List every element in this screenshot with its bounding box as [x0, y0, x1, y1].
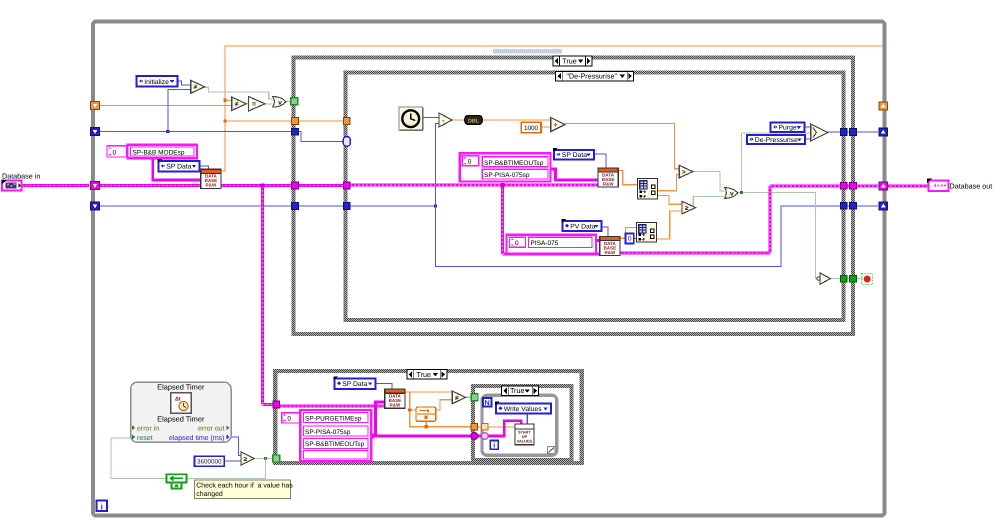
outer while loop border [93, 22, 885, 516]
wire green or gate to case selector [286, 101, 292, 103]
svg-text:≠: ≠ [235, 101, 239, 108]
wire pink branch down to bottom case [261, 186, 264, 405]
svg-text:R&W: R&W [206, 183, 217, 188]
array constant PISA-075 [507, 235, 597, 254]
Elapsed Timer express VI [131, 382, 232, 442]
svg-text:SP-B&BTIMEOUTsp: SP-B&BTIMEOUTsp [484, 160, 544, 167]
wire green not gate to stop terminal [830, 278, 841, 280]
stop boolean terminal [862, 274, 873, 285]
wire blue De-Pressurise to select [805, 138, 811, 140]
database raw VI 3 [385, 389, 405, 408]
wire blue left shift reg row2 [98, 131, 292, 133]
svg-text:De-Pressurise: De-Pressurise [755, 137, 798, 144]
wire blue SP Data enum to DB3 [376, 384, 392, 390]
comparator greater-equal elapsed [241, 452, 254, 465]
enum constant De-Pressurise [747, 135, 805, 144]
bottom inner case structure True frame [473, 386, 572, 460]
svg-text:"De-Pressurise": "De-Pressurise" [566, 72, 617, 81]
svg-text:SP Data: SP Data [562, 152, 587, 159]
svg-text:i: i [493, 442, 495, 450]
feedback node [167, 474, 187, 482]
selector label True bottom case [407, 370, 447, 380]
wire green not-equal to bottom selector [465, 396, 471, 398]
svg-text:≥: ≥ [244, 456, 248, 463]
subtract node [439, 113, 452, 127]
enum constant Purge [771, 123, 805, 132]
database raw VI 0 [201, 169, 221, 188]
wire blue between cases to selector [297, 132, 344, 142]
wire blue select output to tunnels [828, 131, 841, 133]
outer case right tunnels [850, 129, 857, 136]
wire orange to case tunnel [225, 120, 292, 122]
wire orange DB3 to not-equal [405, 391, 453, 393]
svg-text:0: 0 [515, 240, 519, 247]
wire blue enum to comparator [177, 81, 191, 85]
svg-text:0: 0 [287, 416, 291, 423]
svg-text:≡: ≡ [252, 101, 256, 108]
for loop fold corner [548, 447, 556, 454]
wire orange index array1 out1 to greater [658, 175, 680, 191]
or gate 2 [725, 188, 738, 199]
wire orange stub to comparator top [225, 99, 232, 101]
wire green gte to or2 [693, 196, 724, 207]
svg-text:0: 0 [113, 150, 117, 157]
wire orange top span [225, 46, 883, 171]
svg-text:Database in: Database in [2, 172, 40, 181]
enum constant Initialize [137, 76, 178, 87]
wire orange DB3 down to tunnel [410, 392, 472, 427]
index array 1 [638, 179, 658, 200]
wire blue SP Data enum to DB1 [594, 154, 606, 168]
bottom case pink tunnel [273, 401, 280, 408]
svg-text:>: > [682, 169, 686, 176]
wire orange inside for loop to subVI [477, 426, 515, 428]
comment Check each hour [195, 480, 291, 498]
Database out indicator [928, 180, 948, 191]
array constant SP setpoint names [460, 153, 551, 181]
index array 2 [637, 223, 657, 243]
wire blue shift state vertical [168, 90, 191, 132]
comparator equal-zero [248, 97, 265, 112]
wire orange index array2 to gte [657, 211, 683, 239]
svg-text:≠: ≠ [455, 395, 459, 402]
comparator not-equal 1 [191, 80, 205, 93]
wire pink DB0 to case [221, 184, 292, 187]
svg-text:changed: changed [196, 491, 223, 498]
numeric constant 1000 [521, 122, 541, 133]
wire orange 1000 to divide [541, 126, 551, 128]
array constant SP-B&B MODEsp [107, 146, 127, 157]
wire blue SP Data enum to DB0 [200, 166, 209, 169]
svg-text:-: - [442, 117, 444, 124]
svg-text:PV Data: PV Data [570, 224, 596, 231]
svg-text:Check each hour if a value ha: Check each hour if a value has [196, 482, 293, 489]
enum constant SP Data bottom [334, 378, 375, 389]
for loop count terminal N [483, 398, 492, 407]
while loop iteration terminal i [97, 501, 108, 512]
wire pink inner row to DB1 [350, 184, 598, 187]
selector label True for-loop case [502, 386, 539, 396]
svg-text:Write Values: Write Values [504, 406, 543, 413]
wire pink MODEsp array to DB0 [153, 158, 201, 181]
svg-text:SP-PISA-075sp: SP-PISA-075sp [305, 429, 351, 436]
inner case right tunnels [840, 129, 847, 136]
wire orange in-range to not-equal [436, 400, 452, 410]
numeric constant 3600000 [195, 456, 225, 466]
bottom case selector terminal [273, 455, 280, 462]
bottom inner case selector terminal [471, 394, 478, 401]
svg-text:R&W: R&W [605, 250, 616, 255]
svg-text:True: True [510, 386, 525, 395]
inner case structure De-Pressurise frame [346, 73, 844, 321]
svg-text:SP-B&BTIMEOUTsp: SP-B&BTIMEOUTsp [305, 441, 365, 448]
wire blue Write Values to subVI [526, 413, 528, 424]
comparator not-equal bottom [452, 391, 465, 404]
svg-text:R&W: R&W [603, 181, 614, 186]
svg-text:error in: error in [137, 425, 159, 433]
wire blue left shift reg row4 [98, 205, 292, 207]
enum constant Write Values [496, 404, 551, 414]
bottom case structure True frame [275, 371, 582, 463]
wire pink to Database out [886, 184, 928, 187]
svg-text:0: 0 [468, 158, 472, 165]
wire orange subtract to DBL to divide [452, 119, 465, 121]
svg-text:R&W: R&W [390, 402, 401, 407]
select node [811, 124, 828, 141]
right shift register tunnels [879, 102, 888, 110]
wire orange divide to greater [565, 124, 680, 169]
svg-text:v: v [278, 99, 282, 106]
wire orange in-range bottom stub [425, 421, 427, 426]
svg-text:SP-B&B MODEsp: SP-B&B MODEsp [133, 149, 185, 156]
or gate 1 [273, 96, 286, 107]
wire green greater to or2 [693, 172, 725, 191]
svg-text:≠: ≠ [194, 84, 198, 91]
bottom inner case orange tunnel [471, 424, 477, 430]
wire pink branch to DB2 [501, 185, 504, 254]
wire blue tick count loop [350, 205, 436, 207]
enum constant SP Data 0 [159, 161, 200, 172]
svg-text:Elapsed Timer: Elapsed Timer [157, 415, 205, 424]
enum constant PV Data [562, 221, 601, 231]
database raw VI 1 [598, 168, 618, 187]
svg-text:PISA-075: PISA-075 [531, 240, 559, 247]
svg-text:Elapsed Timer: Elapsed Timer [157, 383, 205, 392]
enum constant SP Data 1 [554, 150, 594, 160]
comparator greater-equal [682, 201, 696, 214]
svg-text:True: True [562, 56, 577, 65]
svg-text:error out: error out [198, 426, 225, 433]
wire orange between case borders [297, 120, 344, 122]
wire pink between cases [297, 184, 344, 187]
wire orange index array1 out2 to gte [658, 195, 683, 204]
svg-text:VALUES: VALUES [517, 438, 533, 443]
svg-text:Δt: Δt [175, 396, 181, 402]
wire green comparator2 to comparator3 [246, 103, 248, 105]
for loop frame [482, 395, 557, 455]
svg-text:DBL: DBL [468, 118, 480, 124]
not gate [820, 273, 831, 284]
selector label True top case [553, 56, 592, 66]
array constant bottom setpoint names [282, 413, 300, 423]
wire blue 3600000 to comparator [224, 460, 241, 462]
outer case left tunnels [292, 118, 299, 125]
in range and coerce node [416, 407, 436, 421]
DBL coercion [465, 115, 483, 124]
svg-text:0: 0 [628, 236, 632, 243]
svg-text:SP Data: SP Data [342, 381, 367, 388]
svg-text:True: True [417, 370, 432, 379]
left shift register tunnels [91, 102, 100, 110]
wire orange DB2 to index array2 [620, 228, 637, 239]
svg-text:SP-PURGETIMEsp: SP-PURGETIMEsp [305, 416, 362, 423]
wire green comparator1 elbow to or gate [204, 87, 273, 99]
wire green or2 output net [738, 192, 742, 194]
wire blue index 0 to index array2 [634, 238, 637, 240]
wire orange stub to in-range [410, 409, 416, 411]
wire blue clock to subtract [423, 117, 439, 119]
svg-text:reset: reset [137, 435, 153, 442]
for loop orange tunnel [482, 424, 488, 430]
wire pink Database in to left shift reg [22, 184, 90, 187]
for loop iteration terminal [490, 441, 498, 450]
outer case selector terminal [291, 98, 298, 105]
wire pink right crossings [846, 184, 850, 187]
comparator not-equal 2 [232, 97, 246, 110]
svg-text:Initialize: Initialize [144, 79, 169, 86]
svg-text:SP-PISA-075sp: SP-PISA-075sp [484, 172, 530, 179]
wire pink main row to DB0 [98, 184, 201, 187]
wire pink array1 to DB1 [550, 169, 598, 180]
wire orange stub into DB ref [219, 170, 226, 172]
svg-text:1000: 1000 [524, 125, 539, 132]
svg-text:i: i [101, 502, 103, 511]
svg-text:3600000: 3600000 [197, 459, 222, 466]
wire blue right row2 crossings [846, 205, 850, 207]
comparator greater [679, 165, 693, 178]
wire blue PV Data enum to DB2 [602, 227, 608, 236]
wire pink array2 to DB2 [596, 239, 600, 242]
svg-text:elapsed time (ms): elapsed time (ms) [169, 434, 225, 442]
wire green elapsed comparator to selector and feedback [254, 458, 273, 460]
svg-text:Purge: Purge [779, 125, 797, 132]
tick count clock icon [399, 107, 423, 131]
database raw VI 2 [600, 236, 620, 255]
wire pink DB2 out to right tunnels [620, 252, 770, 255]
inner case left tunnels [344, 118, 351, 125]
wire pink array3 to DB3 and for loop [371, 402, 385, 436]
numeric constant 0 blue [626, 234, 634, 244]
wire orange DB1 to index array1 [618, 171, 638, 185]
for loop pink tunnel [481, 433, 488, 440]
wire orange left shift reg row to comparator [98, 105, 232, 107]
wire pink bottom case main to DB3 [278, 404, 385, 407]
wire blue elapsed time to comparator [231, 437, 241, 456]
selector label De-Pressurise [556, 71, 634, 81]
svg-text:SP Data: SP Data [166, 164, 191, 171]
faint selected label above case [493, 49, 562, 54]
svg-text:v: v [730, 190, 734, 197]
wire green comparator3 to or gate [265, 103, 273, 105]
svg-text:÷: ÷ [554, 122, 558, 129]
svg-text:≥: ≥ [685, 205, 689, 212]
outer case structure True frame [294, 58, 854, 335]
bottom inner case pink tunnel [471, 433, 478, 440]
divide node [551, 118, 565, 132]
svg-text:N: N [485, 400, 490, 407]
start up values subVI [515, 424, 534, 445]
wire blue Purge to select [804, 126, 811, 128]
svg-text:Database out: Database out [950, 182, 993, 191]
